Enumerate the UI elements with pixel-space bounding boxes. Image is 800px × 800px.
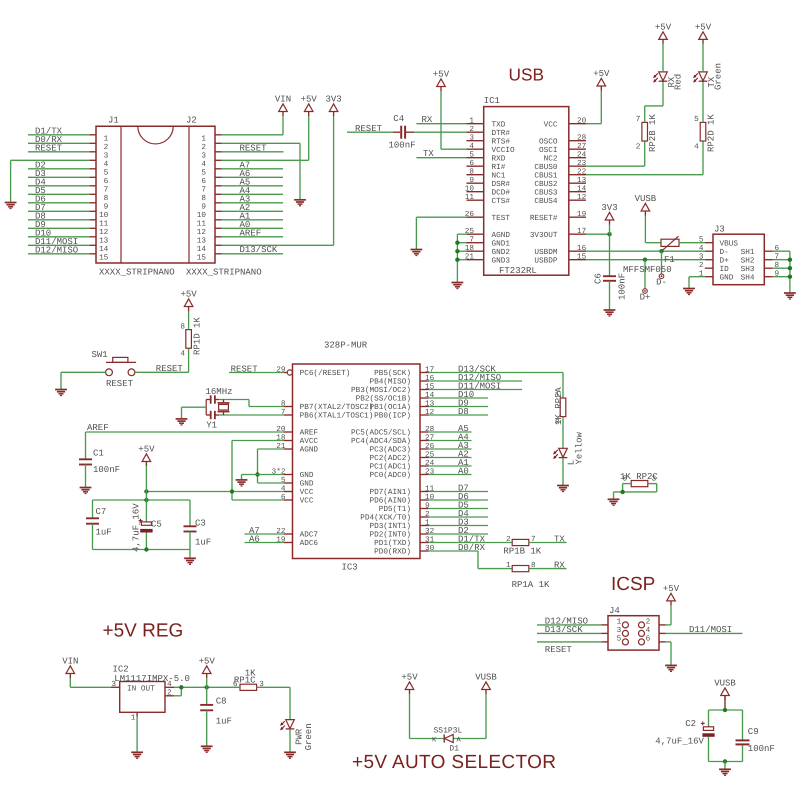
svg-text:4: 4	[469, 142, 474, 151]
svg-text:PC5(ADC5/SCL): PC5(ADC5/SCL)	[351, 429, 411, 438]
svg-text:10: 10	[197, 211, 207, 220]
svg-text:VUSB: VUSB	[635, 194, 657, 204]
svg-text:PB2(SS/OC1B): PB2(SS/OC1B)	[356, 395, 411, 404]
svg-text:SW1: SW1	[92, 350, 108, 360]
svg-text:C3: C3	[195, 518, 206, 528]
svg-text:+5V REG: +5V REG	[103, 620, 184, 641]
svg-text:1: 1	[469, 117, 474, 126]
svg-text:D12/MISO: D12/MISO	[35, 246, 78, 256]
svg-text:6: 6	[622, 474, 627, 483]
svg-text:SH2: SH2	[741, 256, 755, 265]
svg-text:PC3(ADC3): PC3(ADC3)	[369, 446, 411, 455]
svg-text:AVCC: AVCC	[300, 437, 319, 446]
svg-text:+5V: +5V	[199, 656, 216, 666]
svg-text:IC3: IC3	[342, 563, 358, 573]
svg-text:+5V: +5V	[401, 672, 418, 682]
svg-text:11: 11	[99, 220, 109, 229]
svg-text:23: 23	[577, 159, 587, 168]
svg-text:6: 6	[469, 159, 474, 168]
svg-text:USBDP: USBDP	[534, 256, 557, 265]
svg-text:3: 3	[699, 253, 704, 262]
svg-text:RTS#: RTS#	[492, 137, 511, 146]
svg-text:7: 7	[104, 186, 109, 195]
svg-text:D-: D-	[656, 278, 667, 288]
svg-text:22: 22	[577, 168, 587, 177]
svg-text:2: 2	[506, 535, 511, 544]
svg-text:Y1: Y1	[206, 421, 217, 431]
svg-text:PD5(T1): PD5(T1)	[379, 505, 411, 514]
svg-text:+5V AUTO SELECTOR: +5V AUTO SELECTOR	[352, 752, 556, 773]
svg-text:1: 1	[104, 135, 109, 144]
svg-text:14: 14	[197, 245, 207, 254]
svg-text:3: 3	[104, 152, 109, 161]
svg-text:6: 6	[201, 177, 206, 186]
svg-text:14: 14	[99, 245, 109, 254]
svg-text:SH4: SH4	[741, 273, 755, 282]
svg-text:GND: GND	[720, 273, 734, 282]
svg-text:15: 15	[577, 253, 587, 262]
svg-text:PD0(RXD): PD0(RXD)	[374, 548, 411, 557]
svg-text:4: 4	[646, 626, 651, 635]
svg-text:4: 4	[201, 160, 206, 169]
svg-text:1uF: 1uF	[195, 537, 211, 547]
svg-text:13: 13	[577, 176, 587, 185]
svg-text:RP1C: RP1C	[234, 675, 256, 685]
svg-text:2: 2	[646, 618, 651, 627]
svg-text:Green: Green	[304, 723, 314, 750]
svg-text:LM1117IMPX-5.0: LM1117IMPX-5.0	[114, 674, 190, 684]
svg-text:AGND: AGND	[300, 446, 319, 455]
svg-text:D0/RX: D0/RX	[458, 543, 486, 553]
svg-text:J1: J1	[108, 115, 119, 125]
svg-text:PB7(XTAL2/TOSC2): PB7(XTAL2/TOSC2)	[300, 403, 374, 412]
svg-text:4: 4	[699, 244, 704, 253]
svg-text:AREF: AREF	[240, 229, 262, 239]
svg-text:1uF: 1uF	[216, 716, 232, 726]
svg-text:CBUS2: CBUS2	[534, 180, 557, 189]
svg-text:VUSB: VUSB	[714, 678, 736, 688]
svg-text:ICSP: ICSP	[611, 574, 655, 595]
svg-text:PC4(ADC4/SDA): PC4(ADC4/SDA)	[351, 437, 411, 446]
svg-text:CBUS1: CBUS1	[534, 171, 557, 180]
svg-text:8: 8	[180, 322, 185, 331]
svg-text:VCC: VCC	[300, 497, 314, 506]
svg-text:13: 13	[197, 237, 207, 246]
svg-text:PD1(TXD): PD1(TXD)	[374, 539, 411, 548]
svg-text:MFFSMF050: MFFSMF050	[623, 265, 672, 275]
svg-text:+5V: +5V	[433, 69, 450, 79]
svg-text:10: 10	[465, 185, 475, 194]
svg-text:13: 13	[99, 237, 109, 246]
svg-text:D13/SCK: D13/SCK	[240, 245, 278, 255]
svg-text:+5V: +5V	[180, 289, 197, 299]
svg-text:C9: C9	[748, 727, 759, 737]
svg-text:GND1: GND1	[492, 239, 511, 248]
svg-text:D11/MOSI: D11/MOSI	[689, 625, 732, 635]
svg-text:C6: C6	[594, 273, 604, 284]
svg-text:3: 3	[201, 152, 206, 161]
svg-text:CBUS0: CBUS0	[534, 163, 557, 172]
svg-text:PD3(INT1): PD3(INT1)	[369, 522, 411, 531]
svg-text:3V3OUT: 3V3OUT	[530, 231, 558, 240]
svg-text:RESET#: RESET#	[530, 214, 558, 223]
svg-text:2: 2	[699, 261, 704, 270]
svg-text:4: 4	[167, 680, 172, 689]
svg-text:15: 15	[197, 254, 207, 263]
svg-text:J2: J2	[186, 115, 197, 125]
svg-text:3V3: 3V3	[325, 94, 341, 104]
svg-text:PC1(ADC1): PC1(ADC1)	[369, 463, 411, 472]
svg-text:5: 5	[699, 236, 704, 245]
svg-text:PC6(/RESET): PC6(/RESET)	[300, 369, 351, 378]
svg-text:3: 3	[469, 134, 474, 143]
svg-text:14: 14	[577, 185, 587, 194]
svg-text:RP1D 1K: RP1D 1K	[193, 317, 203, 355]
svg-text:RP1B 1K: RP1B 1K	[503, 546, 541, 556]
svg-text:SH1: SH1	[741, 248, 755, 257]
svg-text:8: 8	[201, 194, 206, 203]
svg-text:RP2D 1K: RP2D 1K	[706, 114, 716, 152]
svg-text:XXXX_STRIPNANO: XXXX_STRIPNANO	[186, 268, 262, 278]
svg-text:GND: GND	[300, 480, 314, 489]
svg-text:9: 9	[469, 176, 474, 185]
svg-text:D+: D+	[640, 293, 651, 303]
svg-text:PB6(XTAL1/TOSC1): PB6(XTAL1/TOSC1)	[300, 412, 374, 421]
svg-text:5: 5	[617, 635, 622, 644]
svg-text:IC1: IC1	[484, 96, 500, 106]
svg-text:6: 6	[646, 635, 651, 644]
svg-text:RI#: RI#	[492, 163, 506, 172]
svg-text:TXD: TXD	[492, 120, 506, 129]
svg-text:11: 11	[197, 220, 207, 229]
svg-text:ID: ID	[720, 265, 730, 274]
svg-text:2: 2	[104, 143, 109, 152]
svg-text:28: 28	[577, 134, 587, 143]
svg-text:PB5(SCK): PB5(SCK)	[374, 369, 411, 378]
svg-text:VUSB: VUSB	[475, 672, 497, 682]
svg-text:GND: GND	[300, 471, 314, 480]
svg-text:RX: RX	[422, 115, 433, 125]
svg-text:+5V: +5V	[593, 69, 610, 79]
svg-text:VCC: VCC	[544, 120, 558, 129]
svg-text:IN OUT: IN OUT	[127, 685, 155, 694]
svg-text:PC0(ADC0): PC0(ADC0)	[369, 471, 411, 480]
svg-text:16: 16	[577, 244, 587, 253]
svg-text:XXXX_STRIPNANO: XXXX_STRIPNANO	[99, 268, 175, 278]
svg-text:1: 1	[506, 561, 511, 570]
svg-text:SS1P3L: SS1P3L	[434, 726, 463, 735]
svg-text:100nF: 100nF	[93, 465, 120, 475]
svg-text:D1: D1	[449, 744, 459, 753]
svg-text:RESET: RESET	[545, 645, 573, 655]
svg-text:AREF: AREF	[300, 429, 319, 438]
svg-text:RX: RX	[554, 560, 565, 570]
svg-text:12: 12	[99, 228, 109, 237]
svg-text:Yellow: Yellow	[575, 431, 585, 464]
svg-text:3: 3	[111, 680, 116, 689]
svg-text:RESET: RESET	[231, 364, 259, 374]
svg-text:1uF: 1uF	[96, 528, 112, 538]
svg-text:PD7(AIN1): PD7(AIN1)	[369, 488, 411, 497]
svg-text:5: 5	[694, 115, 699, 124]
svg-text:+5V: +5V	[695, 22, 712, 32]
svg-text:100nF: 100nF	[389, 141, 416, 151]
svg-text:4: 4	[180, 350, 185, 359]
svg-text:J4: J4	[609, 606, 620, 616]
svg-text:PD2(INT0): PD2(INT0)	[369, 531, 411, 540]
svg-text:16MHz: 16MHz	[206, 387, 233, 397]
svg-text:VCCIO: VCCIO	[492, 146, 515, 155]
svg-text:8: 8	[469, 168, 474, 177]
svg-text:RP2B 1K: RP2B 1K	[648, 114, 658, 152]
svg-text:C4: C4	[393, 114, 404, 124]
svg-text:TEST: TEST	[492, 214, 511, 223]
svg-text:RESET: RESET	[35, 144, 63, 154]
svg-text:+5V: +5V	[655, 22, 672, 32]
svg-text:4,7uF_16V: 4,7uF_16V	[655, 737, 704, 747]
svg-text:7: 7	[469, 236, 474, 245]
svg-text:D-: D-	[720, 248, 729, 257]
svg-text:CBUS4: CBUS4	[534, 197, 557, 206]
svg-text:VBUS: VBUS	[720, 239, 739, 248]
svg-text:+5V: +5V	[301, 94, 318, 104]
svg-text:PD4(XCK/T0): PD4(XCK/T0)	[360, 514, 411, 523]
svg-text:AREF: AREF	[87, 423, 109, 433]
svg-text:4,7uF_16V: 4,7uF_16V	[131, 503, 141, 552]
svg-text:TX: TX	[423, 149, 434, 159]
svg-text:5: 5	[201, 169, 206, 178]
svg-text:328P-MUR: 328P-MUR	[324, 341, 368, 351]
svg-text:19: 19	[577, 210, 587, 219]
svg-text:A6: A6	[249, 534, 260, 544]
svg-text:USB: USB	[509, 65, 545, 85]
svg-text:D8: D8	[458, 407, 469, 417]
svg-text:C1: C1	[93, 449, 104, 459]
svg-text:DTR#: DTR#	[492, 129, 511, 138]
svg-text:C5: C5	[151, 519, 162, 529]
svg-text:7: 7	[201, 186, 206, 195]
svg-text:PC2(ADC2): PC2(ADC2)	[369, 454, 411, 463]
svg-text:1: 1	[617, 618, 622, 627]
svg-text:OSCI: OSCI	[539, 146, 557, 155]
svg-text:2: 2	[469, 125, 474, 134]
svg-text:Red: Red	[674, 74, 684, 90]
svg-text:PB1(OC1A): PB1(OC1A)	[369, 403, 411, 412]
svg-text:100nF: 100nF	[618, 273, 628, 300]
svg-text:ADC7: ADC7	[300, 531, 319, 540]
svg-text:OSCO: OSCO	[539, 137, 558, 146]
svg-text:1: 1	[131, 713, 136, 722]
svg-text:RESET: RESET	[355, 124, 383, 134]
svg-text:C7: C7	[96, 507, 107, 517]
svg-text:4: 4	[104, 160, 109, 169]
svg-text:C8: C8	[216, 697, 227, 707]
svg-text:GND2: GND2	[492, 248, 511, 257]
svg-text:D+: D+	[720, 256, 730, 265]
svg-text:RP1A 1K: RP1A 1K	[512, 580, 550, 590]
svg-text:C2: C2	[685, 719, 696, 729]
svg-text:RESET: RESET	[240, 144, 268, 154]
svg-text:DSR#: DSR#	[492, 180, 511, 189]
svg-text:8: 8	[104, 194, 109, 203]
svg-text:Green: Green	[714, 63, 724, 90]
svg-text:CTS#: CTS#	[492, 197, 511, 206]
svg-text:12: 12	[577, 193, 587, 202]
svg-text:12: 12	[197, 228, 207, 237]
svg-text:D13/SCK: D13/SCK	[545, 625, 583, 635]
svg-text:4: 4	[694, 142, 699, 151]
svg-text:PD6(AIN0): PD6(AIN0)	[369, 497, 411, 506]
svg-text:5: 5	[469, 151, 474, 160]
svg-text:A0: A0	[458, 466, 469, 476]
svg-text:+5V: +5V	[138, 444, 155, 454]
svg-text:NC1: NC1	[492, 171, 506, 180]
svg-text:9: 9	[104, 203, 109, 212]
svg-text:F1: F1	[664, 255, 675, 265]
svg-text:NC2: NC2	[544, 154, 558, 163]
svg-text:RESET: RESET	[106, 379, 134, 389]
svg-text:PB4(MISO): PB4(MISO)	[369, 378, 411, 387]
svg-text:RXD: RXD	[492, 154, 506, 163]
svg-text:+5V: +5V	[663, 584, 680, 594]
svg-text:CBUS3: CBUS3	[534, 188, 557, 197]
svg-text:DCD#: DCD#	[492, 188, 511, 197]
svg-text:2: 2	[636, 142, 641, 151]
svg-text:7: 7	[636, 115, 641, 124]
svg-text:ADC6: ADC6	[300, 539, 319, 548]
svg-text:VIN: VIN	[275, 94, 291, 104]
svg-text:FT232RL: FT232RL	[499, 266, 537, 276]
svg-text:15: 15	[99, 254, 109, 263]
svg-text:PB3(MOSI/OC2): PB3(MOSI/OC2)	[351, 386, 411, 395]
svg-text:TX: TX	[554, 534, 565, 544]
svg-text:PB0(ICP): PB0(ICP)	[374, 412, 411, 421]
svg-text:27: 27	[577, 142, 587, 151]
svg-text:11: 11	[465, 193, 475, 202]
svg-text:SH3: SH3	[741, 265, 755, 274]
svg-text:3: 3	[652, 474, 657, 483]
svg-text:VCC: VCC	[300, 488, 314, 497]
svg-text:5: 5	[104, 169, 109, 178]
svg-text:RESET: RESET	[156, 364, 184, 374]
svg-text:2: 2	[167, 688, 172, 697]
svg-text:6: 6	[104, 177, 109, 186]
svg-text:VIN: VIN	[62, 656, 78, 666]
svg-text:20: 20	[577, 117, 587, 126]
svg-text:2: 2	[201, 143, 206, 152]
svg-text:1: 1	[201, 135, 206, 144]
svg-text:USBDM: USBDM	[534, 248, 557, 257]
svg-text:17: 17	[577, 227, 587, 236]
svg-text:3V3: 3V3	[601, 203, 617, 213]
svg-text:GND3: GND3	[492, 256, 511, 265]
svg-text:AGND: AGND	[492, 231, 511, 240]
svg-text:24: 24	[577, 151, 587, 160]
svg-text:10: 10	[99, 211, 109, 220]
svg-text:J3: J3	[714, 225, 725, 235]
svg-text:9: 9	[201, 203, 206, 212]
svg-text:3: 3	[617, 626, 622, 635]
svg-text:100nF: 100nF	[748, 744, 775, 754]
